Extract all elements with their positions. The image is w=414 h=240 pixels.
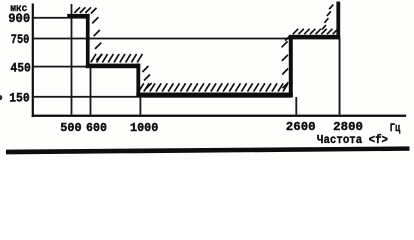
svg-text:600: 600 (86, 121, 107, 135)
hatch left of 2800 rise (322, 5, 333, 30)
dropline 500 (71, 4, 73, 115)
step rise at 2800 (336, 2, 340, 40)
x-axis (32, 115, 407, 117)
step drop at 1000 (136, 64, 140, 97)
hatch right of 600 drop (92, 17, 102, 60)
step bar 450 level (86, 64, 140, 69)
step bar 150 level (136, 93, 292, 98)
svg-text:900: 900 (8, 11, 30, 26)
dropline 600 (90, 68, 92, 115)
step bar 900 level (67, 14, 89, 19)
dropline 1000 (140, 97, 142, 115)
hatch above 150 bar (139, 83, 288, 91)
svg-text:Частота <f>: Частота <f> (317, 133, 388, 147)
hatch above 750 bar (293, 29, 337, 34)
gridline 150 (34, 96, 293, 98)
gridline 900 (34, 17, 68, 19)
hatch above 450 bar (91, 54, 143, 63)
step rise at 2600 (289, 35, 293, 97)
svg-text:2600: 2600 (286, 120, 316, 134)
hatch left of 2600 rise (282, 36, 291, 89)
svg-text:1000: 1000 (130, 121, 158, 135)
dropline 2800 (339, 39, 341, 115)
scan speck left edge (0, 95, 2, 100)
y-axis (32, 4, 34, 118)
gridline 750 (34, 38, 290, 40)
svg-text:750: 750 (11, 32, 30, 47)
gridline 450 (34, 66, 138, 68)
svg-text:150: 150 (9, 90, 30, 105)
dropline 2600 (295, 97, 297, 115)
svg-text:450: 450 (10, 60, 31, 75)
svg-text:Гц: Гц (390, 123, 401, 135)
step drop at 600 (86, 14, 90, 68)
hatch above 900 bar (74, 7, 96, 13)
svg-text:500: 500 (60, 121, 81, 135)
bottom separator rule (6, 146, 410, 154)
svg-text:2800: 2800 (333, 120, 363, 134)
hatch right of 1000 drop (142, 66, 151, 89)
step bar 750 level (289, 35, 340, 40)
